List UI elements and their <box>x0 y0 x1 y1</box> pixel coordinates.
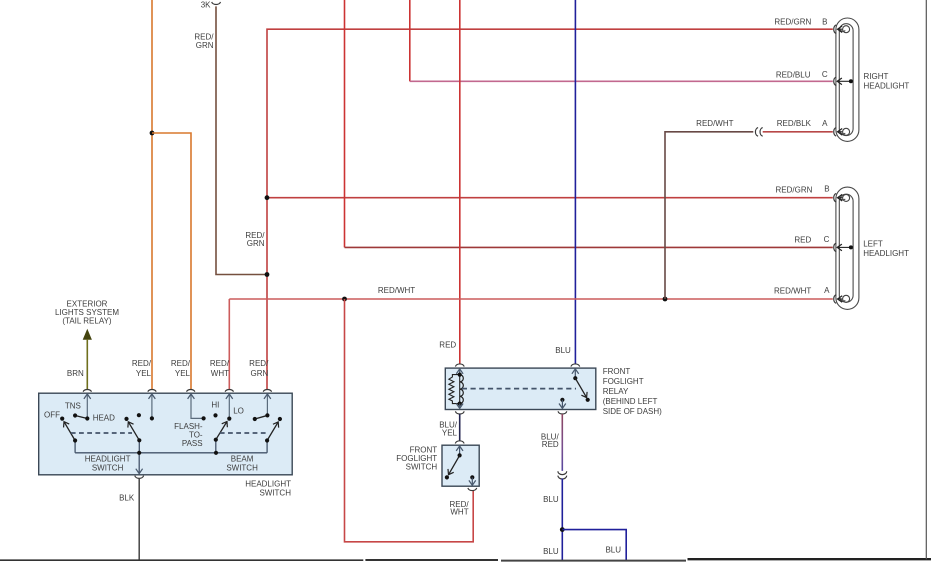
svg-text:BLU: BLU <box>543 547 559 556</box>
wire BLU/YEL relay to foglight switch <box>459 414 461 441</box>
wire RED vertical feed to foglight relay <box>459 0 461 364</box>
wire RED/YEL vertical feed to headlight switch pin 2 <box>151 0 153 389</box>
pin 5 line <box>266 394 268 415</box>
right headlight filament curl A <box>840 132 845 134</box>
wire RED/GRN vertical to headlight switch pin 5 and corner to right headlight B <box>267 29 833 389</box>
node foglight switch top <box>458 453 462 457</box>
connector cup relay bottom center <box>558 411 567 414</box>
svg-text:3K: 3K <box>201 1 211 10</box>
contact B-left <box>124 417 128 421</box>
svg-text:A: A <box>822 119 828 128</box>
right headlight filament curl B <box>840 30 845 32</box>
svg-text:HEADLIGHT: HEADLIGHT <box>85 454 131 463</box>
connector cup BLK below box <box>135 476 144 479</box>
svg-text:BEAM: BEAM <box>231 454 254 463</box>
foglight switch output pin <box>471 477 473 485</box>
contact TNS <box>73 413 77 417</box>
switch wiper A to OFF <box>64 422 75 441</box>
connector cup foglight switch top <box>455 441 464 444</box>
wire RED/WHT branch up to right headlight A <box>665 132 753 299</box>
connector cup pin 2 <box>148 390 156 392</box>
right headlight pin C arrow <box>837 80 851 82</box>
node junction RED/WHT at x665 <box>663 297 668 302</box>
svg-text:RED: RED <box>542 440 559 449</box>
wire BLU branch right and down <box>562 530 626 560</box>
left headlight outer shell <box>836 187 859 309</box>
contact B-pin <box>150 416 154 420</box>
foglight switch pin top <box>459 446 461 455</box>
svg-text:(TAIL RELAY): (TAIL RELAY) <box>62 317 112 326</box>
pivot D <box>265 438 269 442</box>
svg-text:WHT: WHT <box>211 369 229 378</box>
mechanical link dashed A-B <box>71 432 132 434</box>
left headlight inner bulb <box>839 194 853 302</box>
wire BRN from headlight switch pin 1 <box>86 339 88 389</box>
relay output pin <box>561 400 563 409</box>
svg-text:HEADLIGHT: HEADLIGHT <box>245 480 291 489</box>
right headlight pin B arrow <box>838 28 843 30</box>
svg-text:YEL: YEL <box>442 428 458 437</box>
ground bus segment 1 <box>0 559 363 561</box>
contact OFF <box>60 417 64 421</box>
svg-text:RED/BLU: RED/BLU <box>776 70 811 79</box>
svg-text:RED/: RED/ <box>132 359 152 368</box>
left headlight filament curl B <box>840 198 845 200</box>
wire BRN arrow to exterior lights system <box>83 329 92 340</box>
node bus junction C <box>214 451 218 455</box>
relay dashed link <box>462 388 576 390</box>
svg-text:GRN: GRN <box>251 369 269 378</box>
svg-text:RED: RED <box>439 340 456 349</box>
connector 3K at top <box>212 2 221 5</box>
wire RED/GRN branch to left headlight B <box>267 197 833 199</box>
node left headlight common <box>849 245 853 249</box>
wire BLU down from connector <box>561 479 563 561</box>
svg-text:SWITCH: SWITCH <box>226 464 258 473</box>
contact flash-to-pass <box>202 416 206 420</box>
connector cup relay pin RED <box>455 364 464 367</box>
wire BLU/RED from relay output <box>561 414 563 471</box>
connector cup pin 4 <box>225 390 233 392</box>
pin 3 line to flash-to-pass contact <box>191 394 204 418</box>
pivot drop C <box>215 440 217 453</box>
connector cup pin 1 BRN <box>83 390 91 392</box>
node relay switch top <box>573 376 577 380</box>
svg-text:RELAY: RELAY <box>603 387 629 396</box>
svg-text:SIDE OF DASH): SIDE OF DASH) <box>603 407 662 416</box>
contact D-left <box>253 417 257 421</box>
svg-text:(BEHIND LEFT: (BEHIND LEFT <box>603 397 658 406</box>
node junction at RED/GRN left headlight branch <box>265 195 270 200</box>
svg-text:B: B <box>824 185 829 194</box>
page border right <box>925 0 927 559</box>
wire BLU vertical feed to foglight relay <box>574 0 576 364</box>
svg-text:RED/WHT: RED/WHT <box>378 286 415 295</box>
pivot drop A <box>74 441 76 453</box>
svg-text:SWITCH: SWITCH <box>259 488 291 497</box>
svg-text:OFF: OFF <box>44 411 60 420</box>
svg-text:WHT: WHT <box>450 508 468 517</box>
connector cup left headlight C <box>834 243 836 252</box>
left headlight pin B arrow <box>838 197 843 199</box>
contact relay output <box>560 398 564 402</box>
relay resistor (zigzag) <box>449 375 460 404</box>
svg-text:HEAD: HEAD <box>93 414 115 423</box>
svg-text:FOGLIGHT: FOGLIGHT <box>603 377 644 386</box>
svg-text:HI: HI <box>211 400 219 409</box>
node junction BLU <box>560 527 565 532</box>
svg-text:RED/: RED/ <box>210 359 230 368</box>
switch wiper C to LO <box>216 422 227 440</box>
pivot drop B <box>138 440 140 453</box>
contact B-mid <box>137 413 141 417</box>
wire RED/BLK to right headlight A <box>763 131 833 133</box>
contact D-pin <box>265 413 269 417</box>
right headlight filament high <box>843 26 850 33</box>
right headlight filament low <box>843 128 850 135</box>
svg-text:RED/: RED/ <box>249 359 269 368</box>
wire RED/BLU horizontal to right headlight C <box>410 80 833 82</box>
svg-text:TNS: TNS <box>65 401 81 410</box>
pin 1 line to HEAD contact <box>86 394 88 419</box>
svg-text:BRN: BRN <box>67 369 84 378</box>
node relay coil top <box>458 373 462 377</box>
svg-text:RED/GRN: RED/GRN <box>774 18 811 27</box>
svg-text:LO: LO <box>233 407 244 416</box>
svg-text:YEL: YEL <box>136 369 152 378</box>
wire RED/WHT from headlight switch pin 4 up <box>228 299 230 389</box>
left headlight pin A arrow <box>838 298 843 300</box>
left headlight filament curl A <box>840 300 845 302</box>
switch wiper D <box>267 422 278 441</box>
svg-text:RED/BLK: RED/BLK <box>777 119 812 128</box>
svg-text:GRN: GRN <box>247 239 265 248</box>
relay switch pin top <box>574 369 576 378</box>
svg-text:B: B <box>822 18 827 27</box>
connector cup relay bottom left <box>455 411 464 414</box>
svg-text:A: A <box>824 286 830 295</box>
pin 2 line <box>151 394 153 418</box>
BLK drop inside box <box>138 453 140 474</box>
connector inline BLU/RED to BLU <box>558 471 567 479</box>
ground bus segment 4 <box>688 558 932 560</box>
svg-text:RIGHT: RIGHT <box>864 72 889 81</box>
foglight switch wiper <box>449 455 460 474</box>
left headlight filament low <box>843 295 850 302</box>
contact HI <box>213 413 217 417</box>
svg-text:RED/WHT: RED/WHT <box>696 119 733 128</box>
relay switch arm <box>575 378 586 397</box>
left headlight pin C arrow <box>837 246 851 248</box>
svg-text:HEADLIGHT: HEADLIGHT <box>863 249 909 258</box>
link section D <box>255 415 268 419</box>
contact HEAD <box>85 416 89 420</box>
svg-text:PASS: PASS <box>182 439 203 448</box>
svg-text:HEADLIGHT: HEADLIGHT <box>864 81 910 90</box>
node junction 3K wire joins RED/GRN <box>265 272 270 277</box>
svg-text:C: C <box>824 235 830 244</box>
contact relay NO <box>586 398 590 402</box>
node relay coil bottom <box>458 402 462 406</box>
right headlight outer shell <box>836 18 859 141</box>
connector cup foglight switch bottom <box>468 488 477 491</box>
left headlight filament high <box>843 194 850 201</box>
connector cup right headlight A <box>834 128 836 137</box>
foglight relay box <box>445 368 596 409</box>
svg-text:YEL: YEL <box>175 369 191 378</box>
wire RED/YEL branch to headlight switch pin 3 <box>152 133 191 389</box>
node bus junction BLK <box>137 451 141 455</box>
connector cup pin 3 <box>187 390 195 392</box>
foglight switch box <box>442 445 479 486</box>
svg-text:FRONT: FRONT <box>603 367 631 376</box>
wire RED vertical feed <box>344 0 346 247</box>
pivot B <box>137 438 141 442</box>
contact D-right <box>278 417 282 421</box>
relay coil pin bottom <box>459 404 461 409</box>
ground bus segment 2 <box>365 559 498 561</box>
svg-text:BLU: BLU <box>605 545 621 554</box>
link TNS to HEAD <box>75 416 87 419</box>
wire BLK to ground <box>138 478 140 560</box>
svg-text:BLU: BLU <box>543 495 559 504</box>
pivot drop D <box>266 441 268 453</box>
svg-text:C: C <box>822 70 828 79</box>
svg-text:BLU: BLU <box>555 346 571 355</box>
svg-text:RED/GRN: RED/GRN <box>776 185 813 194</box>
connector cup relay pin BLU <box>571 364 580 367</box>
relay coil pin top <box>459 369 461 375</box>
contact foglight switch output <box>470 475 474 479</box>
pivot A <box>73 438 77 442</box>
svg-text:GRN: GRN <box>196 41 214 50</box>
svg-text:BLK: BLK <box>119 493 135 502</box>
node junction RED/YEL branch <box>150 131 155 136</box>
wire RED/BLU vertical feed <box>409 0 411 81</box>
pin 4 line to LO contact <box>228 394 230 419</box>
right headlight pin A arrow <box>838 131 843 133</box>
node junction RED/WHT at x344.5 <box>342 297 347 302</box>
svg-text:LEFT: LEFT <box>863 239 883 248</box>
right headlight inner bulb <box>839 24 853 136</box>
svg-text:SWITCH: SWITCH <box>406 462 438 471</box>
connector inline RED/WHT to RED/BLK <box>755 128 762 137</box>
wire RED/WHT horizontal bus to left headlight A <box>229 298 833 300</box>
relay coil (bumps) <box>460 375 464 404</box>
connector cup pin 5 <box>263 390 271 392</box>
connector cup right headlight C <box>834 77 836 86</box>
common bus <box>75 452 267 454</box>
switch wiper B <box>128 422 139 441</box>
connector cup right headlight B <box>834 25 836 34</box>
svg-text:RED/: RED/ <box>171 359 191 368</box>
mechanical link dashed C-D <box>220 432 267 434</box>
ground bus segment 3 <box>501 560 686 562</box>
connector cup left headlight B <box>834 193 836 202</box>
svg-text:SWITCH: SWITCH <box>92 464 124 473</box>
wire RED/GRN from 3K connector down and to junction <box>216 6 267 274</box>
contact foglight switch open <box>445 475 449 479</box>
relay coil pin line <box>459 375 461 404</box>
connector cup left headlight A <box>834 295 836 304</box>
contact LO <box>227 417 231 421</box>
wire RED/WHT loop down to foglight switch output <box>345 299 474 542</box>
svg-text:RED: RED <box>794 235 811 244</box>
node right headlight common <box>849 79 853 83</box>
headlight switch box <box>39 393 293 475</box>
wire RED horizontal to left headlight C <box>345 246 833 248</box>
svg-text:RED/WHT: RED/WHT <box>774 286 811 295</box>
pivot C <box>214 438 218 442</box>
